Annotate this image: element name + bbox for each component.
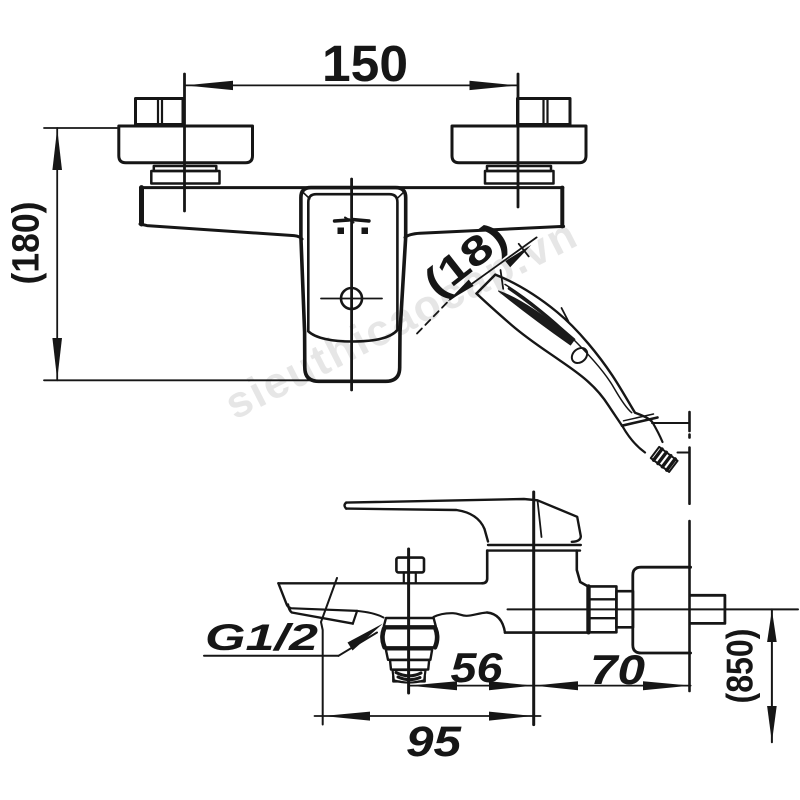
wall centerline dash-dot [688, 412, 691, 691]
body rim corner tick left [303, 193, 310, 199]
left union centerline [183, 74, 186, 211]
dimension 850 line [771, 609, 773, 742]
spout top line [278, 582, 482, 584]
logo square right [362, 228, 369, 235]
svg-text:G1/2: G1/2 [205, 617, 319, 658]
connector neck [616, 591, 633, 627]
hand shower lower outline [477, 294, 623, 426]
wall stub [691, 595, 725, 623]
outlet foot right [419, 677, 425, 682]
hose axis tick at wall [678, 452, 690, 454]
logo square left [338, 228, 345, 235]
body inner face (front view) [308, 194, 397, 341]
mounting bar bottom left [140, 224, 302, 239]
spout outlet centerline [407, 549, 410, 693]
dimension 850 down arrow [767, 706, 777, 742]
dimension 56 right arrow [489, 681, 534, 690]
right union ring [485, 166, 554, 184]
spout to outlet line [357, 611, 383, 618]
screw horizontal centerline [321, 298, 382, 300]
svg-text:56: 56 [451, 644, 504, 691]
body front edge [482, 551, 487, 584]
left union ring [151, 166, 219, 184]
dimension 850 up arrow [767, 610, 777, 642]
dimension 18 dashed axis [417, 300, 450, 334]
right union flange [452, 126, 586, 163]
dimension 70 left arrow [534, 681, 578, 690]
dimension 18 text [415, 213, 516, 306]
hand shower upper outline [495, 275, 651, 421]
lever handle bottom outline [346, 509, 488, 542]
logo scribble [335, 220, 350, 221]
hand shower hose nipple [651, 447, 678, 472]
G1/2 underline [204, 655, 339, 657]
lever handle bevel line [538, 500, 542, 537]
lever handle top outline [346, 499, 581, 542]
dimension 18 lower arrow [448, 280, 474, 302]
dimension 95 left arrow [323, 712, 370, 721]
body lower fillet [487, 613, 505, 633]
spout left edge [278, 583, 291, 608]
dimension 150 left arrow [185, 81, 233, 90]
dimension 180 down arrow [52, 338, 62, 380]
hand shower head face [477, 275, 496, 294]
dimension 150 right arrow [470, 81, 518, 90]
dimension 150 line [185, 84, 518, 86]
hand shower grip band edge [509, 289, 574, 340]
spout underside arm [434, 613, 488, 618]
outlet ring 4 [390, 660, 429, 670]
outlet ring 3 [386, 649, 432, 660]
body center extension line [532, 492, 535, 725]
connector hex nut [588, 586, 617, 632]
diverter stem [404, 572, 416, 583]
body outer casing (front view) [301, 188, 406, 382]
svg-text:(180): (180) [6, 202, 48, 285]
dimension 95 right arrow [489, 712, 533, 721]
dimension 180 text [6, 202, 48, 285]
hand shower cone left [623, 426, 646, 452]
body rim corner tick right [397, 193, 404, 199]
mounting bar top edge [141, 186, 563, 189]
dimension 180 bottom extension line [44, 379, 316, 381]
outlet cup hatch upper [396, 673, 421, 676]
dimension 18 plane tick [519, 244, 529, 257]
hand shower head joint line [501, 270, 504, 289]
outlet cup hatch lower [398, 677, 420, 680]
dimension 180 up arrow [52, 129, 62, 171]
dimension 180 line [56, 128, 58, 380]
G1/2 leader line [339, 633, 378, 656]
mounting bar bottom right [405, 226, 564, 237]
dimension 70 right arrow [643, 681, 691, 690]
svg-text:150: 150 [322, 35, 408, 92]
outlet foot left [393, 677, 399, 682]
outlet ring band [384, 618, 436, 626]
cartridge cap line upper [488, 544, 581, 546]
hand shower inner curve [505, 284, 632, 412]
left union hex nut [136, 99, 184, 125]
hand shower joint line 2 [562, 308, 569, 322]
dimension 18 upper arrow [505, 245, 531, 267]
body vertical centerline [350, 179, 353, 390]
dimension 850 text [720, 629, 761, 704]
right union hex nut [518, 99, 571, 125]
hand shower grip band [499, 291, 575, 345]
body bottom edge [505, 631, 588, 634]
screw circle [341, 288, 362, 309]
lever handle tip [345, 503, 347, 509]
connector horizontal centerline [508, 608, 799, 610]
dimension 180 top extension line [44, 127, 117, 129]
mounting bar left edge [139, 188, 144, 224]
body rear edge [577, 551, 588, 587]
dimension 95 extension line slanted [321, 578, 337, 725]
right union centerline [517, 74, 520, 207]
cartridge cap line lower [487, 549, 580, 551]
dimension 56-70 line [409, 685, 691, 687]
dimension 18 axis line [450, 237, 537, 299]
dimension 95 line [315, 715, 541, 717]
left union flange [119, 126, 253, 163]
hand shower button [569, 345, 590, 366]
svg-text:95: 95 [406, 718, 462, 766]
outlet cup [393, 670, 426, 683]
mounting bar right edge [560, 188, 564, 227]
svg-text:(850): (850) [720, 629, 761, 704]
dimension 56 left arrow [409, 681, 457, 690]
spout mouth end face [353, 611, 357, 624]
svg-text:70: 70 [590, 646, 645, 693]
spout outer lip [288, 605, 353, 624]
diverter knob [396, 558, 424, 573]
hose to wall line [652, 422, 689, 424]
watermark [217, 209, 586, 429]
hand shower cone right [652, 422, 663, 443]
wall flange [633, 567, 691, 653]
spout inner lip [293, 608, 358, 611]
G1/2 leader arrow [348, 624, 384, 651]
outlet big ring [382, 628, 437, 647]
hand shower handle end face [622, 418, 658, 426]
